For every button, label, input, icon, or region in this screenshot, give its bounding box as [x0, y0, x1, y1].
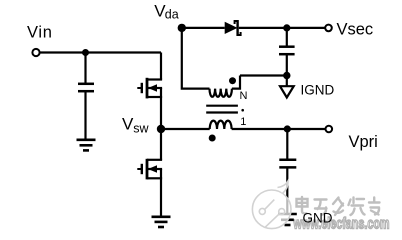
capacitor Cin — [78, 84, 94, 91]
transistor Q1 (upper MOSFET) — [137, 78, 162, 99]
diode D1 (Schottky) — [225, 20, 241, 36]
terminal Vsec — [325, 25, 332, 32]
wire Csec to IGND node — [286, 55, 288, 76]
wire Cin to ground — [84, 92, 86, 140]
wire Vda down to secondary winding — [182, 28, 210, 89]
wire Vin rail — [40, 51, 161, 53]
wire IGND node to secondary winding — [240, 74, 287, 76]
wire Vsw to Q2 drain — [160, 129, 162, 160]
wire diode cathode to Vsec node — [239, 27, 325, 29]
transformer T1 primary winding — [210, 121, 232, 129]
capacitor Csec — [279, 47, 295, 55]
transformer T1 core — [206, 106, 238, 113]
label ratio colon — [241, 109, 244, 112]
svg-text:IGND: IGND — [301, 83, 335, 98]
node Vin/Cin junction — [82, 49, 89, 56]
wire Vda to diode anode — [182, 27, 225, 29]
ground (Q2 source) — [152, 217, 171, 227]
svg-text:Vpri: Vpri — [349, 133, 378, 151]
wire Vsec node to Csec — [286, 28, 288, 46]
wire Q1 source to Vsw — [160, 97, 162, 129]
net label Vda — [154, 1, 178, 21]
node Vsw — [157, 125, 165, 133]
transformer T1 secondary winding — [210, 89, 232, 97]
wire Vsw to primary winding — [161, 128, 210, 130]
svg-text:N: N — [240, 90, 248, 102]
ground IGND (isolated, triangle) — [280, 86, 294, 97]
net label Vsw — [122, 114, 150, 135]
wire Vin rail to Q1 drain — [160, 53, 162, 80]
svg-text:Vin: Vin — [27, 23, 53, 41]
terminal Vin — [32, 49, 39, 56]
svg-text:da: da — [165, 8, 179, 22]
transistor Q2 (lower MOSFET) — [137, 159, 162, 180]
wire junction to Cin — [84, 53, 86, 84]
ground GND — [278, 214, 297, 225]
node Vsec junction — [283, 24, 290, 31]
terminal Vpri — [326, 126, 333, 133]
svg-text:GND: GND — [303, 211, 333, 226]
svg-text:1: 1 — [240, 116, 246, 128]
svg-text:sw: sw — [133, 122, 149, 136]
wire Vpri node to Cpri — [286, 129, 288, 159]
wire primary winding to Vpri terminal — [232, 128, 326, 130]
polarity dot primary — [209, 135, 216, 142]
node Vda — [178, 24, 186, 32]
ground (Cin) — [77, 140, 96, 151]
polarity dot secondary — [229, 77, 236, 84]
watermark logo (decorative, semi-transparent overlay) — [252, 181, 291, 229]
wire Q2 source to ground — [160, 178, 162, 216]
svg-text:V: V — [122, 114, 134, 133]
wire Cpri to GND — [286, 168, 288, 214]
node Vpri junction — [284, 125, 291, 132]
watermark (decorative, drawn beneath circuit) — [298, 198, 381, 216]
svg-text:Vsec: Vsec — [337, 21, 374, 39]
capacitor Cpri — [279, 160, 296, 168]
wire secondary winding to IGND rail — [232, 76, 240, 89]
wire IGND node down to IGND symbol — [286, 76, 288, 87]
node IGND junction — [283, 72, 290, 79]
